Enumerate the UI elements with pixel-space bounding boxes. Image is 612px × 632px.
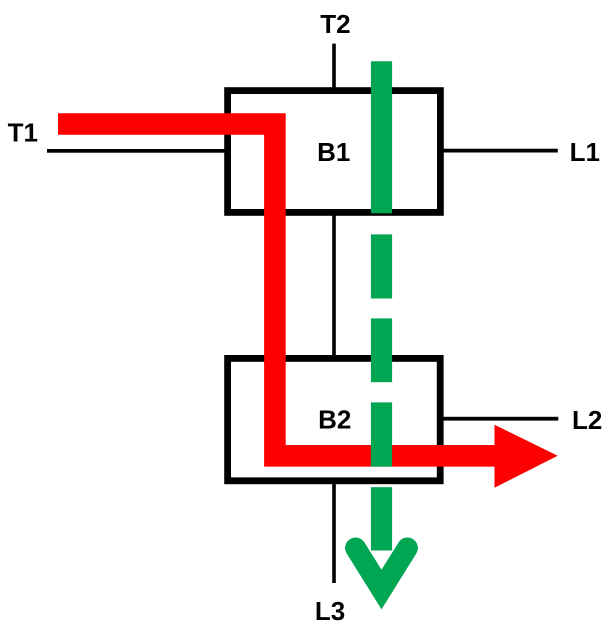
svg-text:B2: B2 xyxy=(318,404,351,434)
red flow arrowhead at L2 xyxy=(495,425,558,488)
wire T1 lead xyxy=(47,149,228,153)
wire L2 lead xyxy=(440,417,558,421)
box B2 xyxy=(228,358,441,480)
wire L1 lead xyxy=(440,149,558,153)
green flow dash 4 xyxy=(371,487,392,550)
green flow dash 3 xyxy=(371,402,392,466)
green flow solid segment through B1 xyxy=(371,61,392,213)
svg-text:T1: T1 xyxy=(8,117,38,147)
svg-text:L3: L3 xyxy=(315,596,345,626)
green flow arrowhead at L3 xyxy=(356,548,408,590)
red flow path T1 to L2 xyxy=(58,124,496,456)
green flow dash 1 xyxy=(371,234,392,298)
svg-text:T2: T2 xyxy=(320,9,350,39)
wire T2 lead xyxy=(332,44,336,91)
svg-text:L1: L1 xyxy=(570,137,600,167)
svg-text:L2: L2 xyxy=(572,405,602,435)
wire middle lead B1-B2 xyxy=(332,212,336,359)
box B1 xyxy=(228,91,441,213)
svg-text:B1: B1 xyxy=(317,137,350,167)
green flow dash 2 xyxy=(371,318,392,382)
wire L3 lead xyxy=(332,481,336,583)
